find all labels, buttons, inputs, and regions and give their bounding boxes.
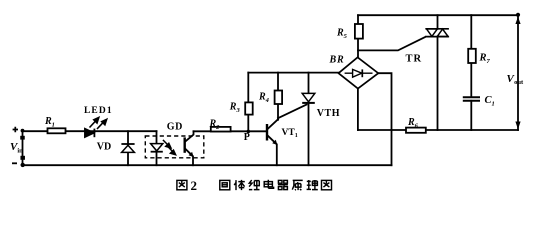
diode VD xyxy=(121,144,134,152)
wire TR anode xyxy=(437,15,439,29)
resistor R4 xyxy=(275,91,283,105)
output top-right dot xyxy=(516,13,520,17)
wire C1 lower xyxy=(470,101,472,130)
capacitor C1 xyxy=(463,97,480,101)
svg-text:R4: R4 xyxy=(258,91,270,104)
opto coupling arrows xyxy=(163,140,176,155)
wire R5 branch xyxy=(357,15,359,57)
resistor R3 xyxy=(245,102,253,114)
resistor R1 xyxy=(48,128,66,133)
optocoupler GD dashed box xyxy=(145,136,204,158)
transistor VT1 emitter arrowhead xyxy=(272,140,277,145)
wire BR right branch xyxy=(378,73,391,165)
opto phototransistor base bar xyxy=(183,137,185,152)
Vout arrow up xyxy=(515,17,520,24)
caption glyph ji xyxy=(249,180,260,190)
svg-text:VTH: VTH xyxy=(317,108,340,119)
input terminal dot top xyxy=(21,129,25,133)
wire VT1 collector diagonal xyxy=(268,119,278,128)
input terminal tick top xyxy=(20,136,25,140)
resistor R5 xyxy=(355,24,363,39)
LED1 emission arrows xyxy=(90,118,107,130)
svg-text:R5: R5 xyxy=(336,28,348,41)
caption glyph qi xyxy=(278,180,288,189)
wire VD branch xyxy=(127,131,129,165)
caption glyph gu xyxy=(220,180,230,189)
svg-text:TR: TR xyxy=(406,53,423,64)
wire TR cathode xyxy=(437,37,439,130)
resistor R7 xyxy=(468,49,476,63)
bridge BR diamond xyxy=(339,57,379,88)
wire R7 C1 branch xyxy=(470,15,472,97)
svg-text:R3: R3 xyxy=(229,102,241,115)
svg-text:R2: R2 xyxy=(209,118,221,131)
wire output top rail xyxy=(358,14,518,16)
wire bottom rail xyxy=(23,164,392,166)
resistor R6 xyxy=(406,128,426,133)
wire R3 branch xyxy=(247,73,249,132)
svg-text:C1: C1 xyxy=(485,95,495,108)
wire VTH anode xyxy=(308,73,310,94)
caption glyph dian xyxy=(264,180,273,189)
caption glyph ti xyxy=(234,180,245,190)
svg-text:VT1: VT1 xyxy=(282,128,298,139)
input terminal tick bottom xyxy=(20,156,25,160)
wire VTH gate xyxy=(278,105,307,119)
wire R4 collector branch xyxy=(277,73,279,120)
opto LED xyxy=(151,144,163,152)
node P xyxy=(247,130,251,134)
svg-text:Vin: Vin xyxy=(10,141,23,155)
wire VT1 emitter xyxy=(268,136,277,165)
wire R6 rail xyxy=(358,129,518,131)
svg-text:VD: VD xyxy=(97,141,111,152)
svg-text:P: P xyxy=(244,132,250,143)
LED LED1 xyxy=(85,129,95,138)
wire R2 rail to base xyxy=(194,130,267,132)
wire BR bottom branch xyxy=(357,89,359,130)
Vout arrow down xyxy=(515,122,520,130)
bridge BR inner diode xyxy=(345,69,373,77)
wire input top rail xyxy=(23,130,157,132)
wire opto collector xyxy=(185,131,193,141)
wire TR gate rail xyxy=(358,37,426,51)
svg-text:R1: R1 xyxy=(44,116,55,129)
wire opto LED branch xyxy=(156,131,158,165)
wire opto emitter xyxy=(185,149,193,165)
triac TR xyxy=(425,29,449,37)
caption glyph li xyxy=(307,180,318,190)
label minus xyxy=(12,162,17,164)
wire control top rail xyxy=(248,72,338,74)
wire output right edge xyxy=(517,15,519,130)
input terminal dot bottom xyxy=(21,163,25,167)
svg-text:R6: R6 xyxy=(407,117,419,130)
caption figure 2 glyph tu xyxy=(177,180,187,189)
resistor R2 xyxy=(211,127,231,132)
svg-text:LED1: LED1 xyxy=(84,106,113,116)
caption glyph yuan xyxy=(292,180,302,190)
svg-text:Vout: Vout xyxy=(507,73,525,86)
svg-text:GD: GD xyxy=(167,121,183,132)
wire input left vertical xyxy=(22,130,24,165)
wire VTH cathode xyxy=(308,103,310,165)
thyristor VTH xyxy=(302,93,315,103)
svg-text:BR: BR xyxy=(329,55,345,66)
opto emitter arrowhead xyxy=(189,152,194,157)
label plus xyxy=(13,127,18,132)
transistor VT1 base bar xyxy=(266,124,268,141)
svg-text:2: 2 xyxy=(191,178,198,193)
caption glyph tu2 xyxy=(322,180,332,189)
svg-text:R7: R7 xyxy=(479,53,491,66)
